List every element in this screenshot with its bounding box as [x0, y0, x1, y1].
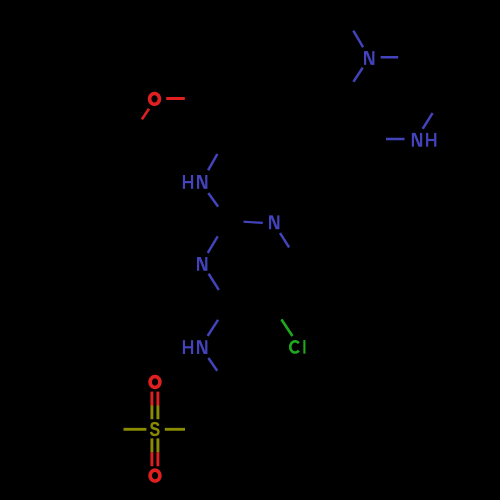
atom O2 (sulfonyl upper oxygen) [150, 377, 160, 388]
bond N1=C2 (N half) [208, 236, 218, 253]
bond N1-C6 (N half) [209, 274, 219, 290]
bond N1'-C2' ring (N half, diagonal) [423, 113, 433, 129]
bond N4'-C5' ring (N half, diagonal) [353, 68, 362, 82]
atom N1 (pyrimidine) [197, 257, 207, 271]
bond O1-C2' aryl (O half) [142, 109, 149, 120]
bond C5-Cl (Cl half) [281, 319, 292, 336]
bond N1'-C6' ring (N half, horizontal) [386, 138, 405, 141]
bond S=O2 (O halves, twin lines) [150, 392, 153, 406]
bond S-CH2 (alkyl side, S half) [124, 428, 147, 431]
bond S=O3 (O halves, twin lines) [150, 452, 153, 466]
bond S=O2 (S halves, twin lines) [150, 406, 153, 420]
atom O1 (methoxy oxygen) [150, 94, 160, 105]
svg-text:S: S [150, 419, 161, 441]
atom N3 (pyrimidine) [269, 215, 279, 229]
bond N4'-C3' ring (N half, horizontal) [381, 56, 399, 59]
bond N2-C2 pyrimidine (N half) [208, 193, 218, 207]
bond S=O3 (S halves, twin lines) [150, 438, 153, 452]
atom N2 H (anilino NH upper, label HN) [183, 175, 208, 189]
bond N7-C4 pyrimidine (N half) [208, 320, 219, 336]
bond N2-C1' aryl (N half) [208, 154, 217, 170]
bond O1-CH3 (methoxy methyl, O half) [166, 97, 185, 100]
bond N7-C1'' aryl lower (N half) [208, 358, 217, 371]
atom N7 H (anilino NH lower, label HN) [183, 340, 208, 354]
atom N1' H (piperazine NH) [412, 133, 437, 147]
atom O3 (sulfonyl lower oxygen) [150, 470, 160, 481]
bond C2=N3 (N half) [244, 222, 263, 223]
bond N3-C4 (N half) [280, 233, 289, 247]
atom N4' (piperazine N-methyl nitrogen) [364, 51, 374, 65]
bond S-C2'' aryl (S half) [165, 428, 185, 431]
atom Cl (chloro substituent) [290, 340, 304, 354]
bond N4'-CH3 (N half) [353, 31, 363, 48]
